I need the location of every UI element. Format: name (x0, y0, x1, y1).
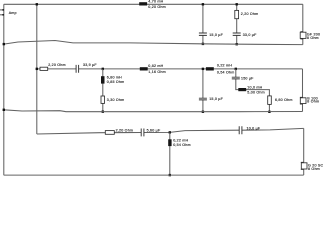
svg-text:2,20 Ohm: 2,20 Ohm (116, 129, 134, 133)
svg-text:10,0 µF: 10,0 µF (247, 126, 261, 130)
svg-text:2,20 Ohm: 2,20 Ohm (241, 12, 259, 16)
inductor L1 4,70mH 0,20Ohm top row (139, 2, 147, 5)
resistor R 2,20 Ohm top (235, 10, 239, 18)
capacitor C 150uF (232, 77, 240, 79)
resistor R 3,30 Ohm shunt (101, 96, 105, 103)
svg-text:15,0 µF: 15,0 µF (209, 97, 223, 101)
capacitor C 5,60uF row3 (141, 129, 144, 137)
wire row2 main (37, 68, 303, 70)
inductor L 10,0mH (238, 88, 246, 91)
resistor R 2,20 Ohm row2 (40, 67, 48, 70)
wire RLC shunt chain (236, 69, 270, 112)
resistor R 6,80 Ohm (268, 96, 272, 105)
wire shunt node A down (102, 69, 104, 112)
svg-text:0,54 Ohm: 0,54 Ohm (217, 70, 235, 74)
node row2 x203 (202, 68, 204, 70)
capacitor C 15,0uF row2 (199, 98, 207, 100)
wire mid vertical feed (36, 4, 38, 134)
node rail1 x203 (202, 43, 204, 45)
svg-text:0,22 mH: 0,22 mH (217, 64, 232, 68)
speaker GF 200 (300, 32, 320, 40)
svg-text:2,20 Ohm: 2,20 Ohm (48, 63, 66, 67)
inductor L 6,80mH shunt (101, 76, 105, 83)
node row2 left junction (36, 68, 38, 70)
amp terminal nub + (2, 9, 4, 11)
svg-text:15,0 µF: 15,0 µF (209, 33, 223, 37)
svg-text:0,20 Ohm: 0,20 Ohm (148, 5, 166, 9)
svg-text:5,00 Ohm: 5,00 Ohm (247, 91, 265, 95)
wire row3 right drop (303, 128, 305, 175)
inductor L 0,22mH row2 (206, 67, 214, 70)
svg-text:0,85 Ohm: 0,85 Ohm (107, 80, 125, 84)
node rail1 x237 (236, 43, 238, 45)
wire left vertical bus (3, 4, 5, 175)
wire top rail (4, 3, 303, 5)
capacitor C 33,0uF (233, 33, 241, 35)
amp terminal nub - (2, 14, 4, 16)
svg-text:0,22 mH: 0,22 mH (173, 139, 188, 143)
node A row2 (102, 68, 104, 70)
svg-text:8 Ohm: 8 Ohm (307, 36, 319, 40)
svg-text:0,82 mH: 0,82 mH (148, 64, 163, 68)
svg-text:5,60 µF: 5,60 µF (147, 129, 161, 133)
svg-text:6,80 Ohm: 6,80 Ohm (275, 98, 293, 102)
capacitor C 33,9uF row2 (76, 65, 79, 73)
node rail2 x269 (268, 111, 270, 113)
svg-text:33,0 µF: 33,0 µF (243, 33, 257, 37)
node row3 x170 (169, 131, 171, 133)
amp terminal stub + (0, 9, 4, 11)
svg-text:0,54 Ohm: 0,54 Ohm (173, 143, 191, 147)
wire shunt B vertical (R+C) (236, 4, 238, 44)
capacitor C 10,0uF row3 (239, 126, 242, 134)
speaker B 100 (300, 97, 319, 104)
wire return rail 1 (4, 41, 303, 45)
capacitor C 15,0uF top (199, 33, 207, 35)
wire return rail 3 (4, 174, 304, 176)
resistor R 2,20 Ohm row3 (105, 131, 114, 135)
node rail2 x103 (102, 111, 104, 113)
svg-text:3,30 Ohm: 3,30 Ohm (107, 98, 125, 102)
speaker G 20 SC (301, 162, 324, 171)
svg-text:8 Ohm: 8 Ohm (307, 100, 319, 104)
wire return rail 2 (4, 110, 303, 112)
svg-text:10,0 mH: 10,0 mH (247, 85, 262, 89)
wire row3 main (37, 128, 304, 134)
node top feed junction (36, 3, 38, 5)
svg-text:6,80 mH: 6,80 mH (107, 75, 122, 79)
node rail3 x170 (169, 174, 171, 176)
wire shunt A vertical (15uF) (202, 4, 204, 44)
amp terminal stub - (0, 14, 4, 16)
node B row2 (235, 68, 237, 70)
node top rail x203 (202, 3, 204, 5)
svg-text:33,9 µF: 33,9 µF (83, 63, 97, 67)
inductor L 0,22mH row3 (168, 139, 171, 146)
wire shunt 15uF row2 (202, 69, 204, 112)
svg-text:8 Ohm: 8 Ohm (308, 167, 320, 171)
svg-text:1,16 Ohm: 1,16 Ohm (148, 70, 166, 74)
node rail1 left (3, 43, 5, 45)
node top rail x237 (236, 3, 238, 5)
svg-text:150 µF: 150 µF (241, 77, 254, 81)
wire shunt row3 down (169, 132, 171, 175)
node rail2 x203 (202, 111, 204, 113)
wire row2 right drop (302, 69, 304, 112)
node rail2 left (3, 109, 5, 111)
inductor L 0,82mH row2 (140, 67, 148, 70)
wire row1 right drop (302, 4, 304, 44)
svg-text:4,70 mH: 4,70 mH (148, 0, 163, 4)
svg-text:Amp: Amp (9, 11, 17, 15)
